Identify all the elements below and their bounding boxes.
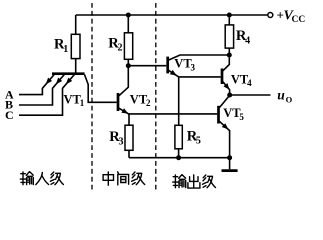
svg-text:2: 2 [118,43,123,54]
resistor R1 [71,34,80,58]
wire VT1 collector to VT2 base [85,75,117,103]
label R5 [187,128,201,146]
terminal +Vcc [268,13,273,18]
node junction rail/R4 [227,13,232,18]
label R3 [109,129,123,147]
wire node to VT3 base [128,65,166,67]
wire VT2 emitter to VT5 base [119,108,217,114]
svg-text:5: 5 [239,112,244,122]
node R5/ground rail [176,155,181,160]
wire ground rail [129,157,230,159]
label R4 [236,28,250,47]
resistor R2 [124,33,132,60]
resistor R3 [125,125,133,150]
transistor VT4 bar [221,69,224,85]
stage label 输入级 (input stage) [20,172,63,185]
svg-text:3: 3 [191,62,196,72]
wire R5 bottom lead [178,149,180,158]
svg-text:CC: CC [292,15,306,25]
svg-text:4: 4 [245,35,250,46]
svg-text:O: O [286,94,293,104]
resistor R4 [225,25,233,48]
wire VT2 collector [119,66,128,96]
wire R1 to VT1 base [75,59,77,74]
svg-text:5: 5 [196,136,201,147]
node R2 / VT2 collector / VT3 base [126,63,131,68]
wire to output uO [230,94,271,96]
node R4 / VT3 collector / VT4 collector [227,53,232,58]
wire +Vcc top rail [76,14,268,16]
label VT3 [174,57,195,73]
stage label 输出级 (output stage) [173,175,216,188]
transistor VT5 bar [217,106,220,124]
wire VT2 emitter to R3 [128,114,130,125]
stage label 中间级 (middle stage) [103,172,145,185]
label VT2 [130,93,151,109]
ground symbol [222,158,238,171]
svg-text:3: 3 [119,136,124,147]
label R2 [108,36,122,54]
wire R4 top lead [228,15,230,25]
stage boundary dashed line 1 (input/middle) [91,3,93,191]
VT1 emitter 1 + wire to input A [19,75,54,95]
wire VT5 collector [219,95,229,107]
node output uO [227,93,232,98]
label R1 [54,37,68,55]
label +Vcc [277,7,306,24]
wire VT3 emitter to VT4 base [169,70,221,77]
wire VT5 emitter to ground [219,121,229,157]
svg-text:1: 1 [80,98,85,108]
svg-text:2: 2 [146,98,151,108]
wire R3 bottom lead [128,150,130,157]
transistor VT1 base bar (multi-emitter) [52,72,85,75]
label VT4 [231,72,252,88]
resistor R5 [175,125,182,149]
svg-text:4: 4 [247,78,252,88]
VT1 emitter 2 + wire to input B [19,75,64,106]
wire R2 top lead [127,15,129,33]
node VT5 emitter/ground rail [227,155,232,160]
svg-text:1: 1 [63,44,68,55]
label VT5 [223,106,244,122]
label VT1 [64,92,85,108]
wire R4 bottom lead [228,48,230,55]
transistor VT2 bar [117,93,120,111]
wire R2 bottom lead [127,59,129,65]
node junction rail/R2 [126,13,131,18]
wire VT4 collector [223,55,229,71]
wire VT4 emitter to output node [223,82,230,95]
stage boundary dashed line 2 (middle/output) [155,3,157,191]
transistor VT3 bar [166,57,169,74]
wire VT3 collector to R4 node [169,55,230,60]
svg-text:C: C [5,108,14,122]
svg-text:u: u [277,87,285,102]
VT1 emitter 3 + wire to input C [19,75,74,116]
wire VT3 emitter down to R5 [178,77,180,125]
wire R1 top lead [75,15,77,34]
label uO [277,87,292,104]
